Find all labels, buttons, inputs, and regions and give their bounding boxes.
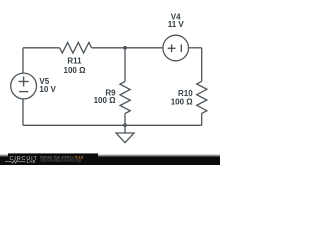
svg-text:100 Ω: 100 Ω — [171, 98, 194, 107]
svg-text:LAB: LAB — [27, 159, 36, 164]
svg-text:R10: R10 — [178, 89, 193, 98]
svg-text:http://circuitlab.com/c/ccrvtg: http://circuitlab.com/c/ccrvtg3 — [40, 158, 81, 162]
svg-text:100 Ω: 100 Ω — [94, 96, 117, 105]
svg-text:10 V: 10 V — [39, 85, 56, 94]
svg-text:R11: R11 — [67, 56, 82, 65]
svg-text:11 V: 11 V — [168, 20, 185, 29]
svg-text:100 Ω: 100 Ω — [64, 66, 87, 75]
